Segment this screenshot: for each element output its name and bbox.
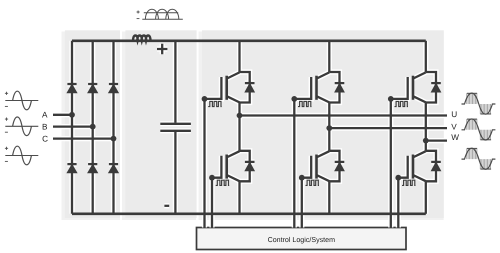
output V waveform sine envelope [462, 119, 496, 140]
AC source phase B symbol sine wave [13, 117, 32, 136]
AC source phase A symbol polarity - [5, 105, 8, 107]
svg-text:B: B [42, 122, 48, 131]
gate PWM waveform Q1 high side leg 1 [208, 101, 222, 106]
svg-text:W: W [451, 133, 459, 142]
control box U10 [197, 228, 407, 250]
gate PWM waveform Q2 high side leg 2 [298, 101, 312, 106]
output W waveform top cap [467, 147, 477, 149]
output W waveform PWM hatching [467, 148, 491, 169]
output W waveform bottom cap [480, 168, 491, 170]
output V waveform bottom cap [480, 139, 491, 141]
output U waveform top cap [467, 92, 477, 94]
wire white casing pass [53, 36, 447, 228]
AC source phase C symbol polarity + [5, 147, 8, 150]
svg-text:A: A [42, 111, 48, 120]
panel shadow: DC link [122, 32, 196, 221]
rectified DC polarity + [137, 11, 140, 14]
rectified DC polarity - [137, 18, 140, 20]
gate PWM waveform Q3 high side leg 3 [395, 101, 409, 106]
svg-text:V: V [451, 123, 457, 132]
AC source phase A symbol baseline [5, 100, 38, 102]
AC source phase B symbol polarity - [5, 131, 8, 133]
AC source phase C symbol sine wave [13, 146, 32, 165]
svg-text:Control Logic/System: Control Logic/System [268, 236, 336, 244]
AC source phase A symbol sine wave [13, 91, 32, 110]
output V waveform PWM hatching [467, 119, 491, 140]
panel shadow: rectifier [62, 32, 121, 221]
gate PWM waveform low side leg 2 [306, 180, 320, 185]
output U waveform sine envelope [462, 93, 496, 114]
AC source phase B symbol baseline [5, 125, 38, 127]
AC source phase C symbol polarity - [5, 160, 8, 162]
svg-text:C: C [42, 134, 48, 143]
output U waveform PWM hatching [467, 93, 491, 114]
panel: inverter section background [202, 30, 444, 218]
gate PWM waveform low side leg 1 [216, 180, 230, 185]
output V waveform top cap [467, 118, 477, 120]
rectified DC waveform average line [144, 12, 178, 14]
panel shadow: inverter [199, 32, 444, 221]
output W waveform sine envelope [462, 148, 496, 169]
AC source phase A symbol polarity + [5, 92, 8, 95]
panel: rectifier section background [65, 30, 120, 218]
AC source phase C symbol baseline [5, 155, 38, 157]
rectified DC waveform humps [145, 9, 178, 19]
rectified DC waveform baseline [142, 18, 183, 20]
panel: DC link section background [125, 30, 196, 218]
wire dark core pass [53, 36, 447, 228]
svg-text:U: U [451, 110, 457, 119]
output U waveform bottom cap [480, 113, 491, 115]
gate PWM waveform low side leg 3 [402, 180, 416, 185]
AC source phase B symbol polarity + [5, 118, 8, 121]
